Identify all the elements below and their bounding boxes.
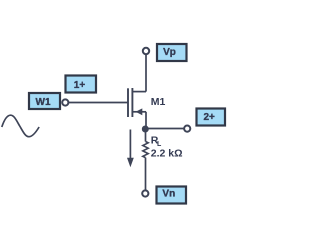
terminal Vp	[143, 48, 149, 54]
wire gate	[69, 102, 128, 104]
wire source	[145, 112, 147, 129]
terminal Vn	[142, 190, 148, 196]
wire drain	[145, 51, 147, 92]
node 2+ label box	[197, 109, 226, 126]
svg-text:Vn: Vn	[162, 189, 175, 200]
current direction arrow	[127, 130, 134, 168]
node 1+ label box	[66, 76, 97, 93]
svg-text:1+: 1+	[74, 80, 86, 91]
svg-text:Vp: Vp	[163, 47, 176, 58]
sine wave source symbol	[2, 115, 39, 137]
node Vp label box	[157, 44, 187, 61]
resistor RL 2.2 kOhm	[143, 135, 183, 160]
svg-text:W1: W1	[36, 97, 51, 108]
terminal W1 (scope/AWG input)	[62, 99, 68, 105]
terminal 2+	[184, 126, 190, 132]
transistor M1	[128, 88, 166, 117]
wire to output terminal	[146, 128, 184, 130]
node Vn label box	[157, 187, 187, 204]
svg-text:2.2 kΩ: 2.2 kΩ	[151, 148, 183, 160]
svg-text:M1: M1	[151, 96, 166, 108]
node junction	[142, 126, 149, 133]
wire to Vn	[145, 158, 147, 193]
svg-text:2+: 2+	[203, 112, 215, 123]
wire to resistor	[145, 129, 147, 142]
node W1 label box	[29, 93, 60, 109]
